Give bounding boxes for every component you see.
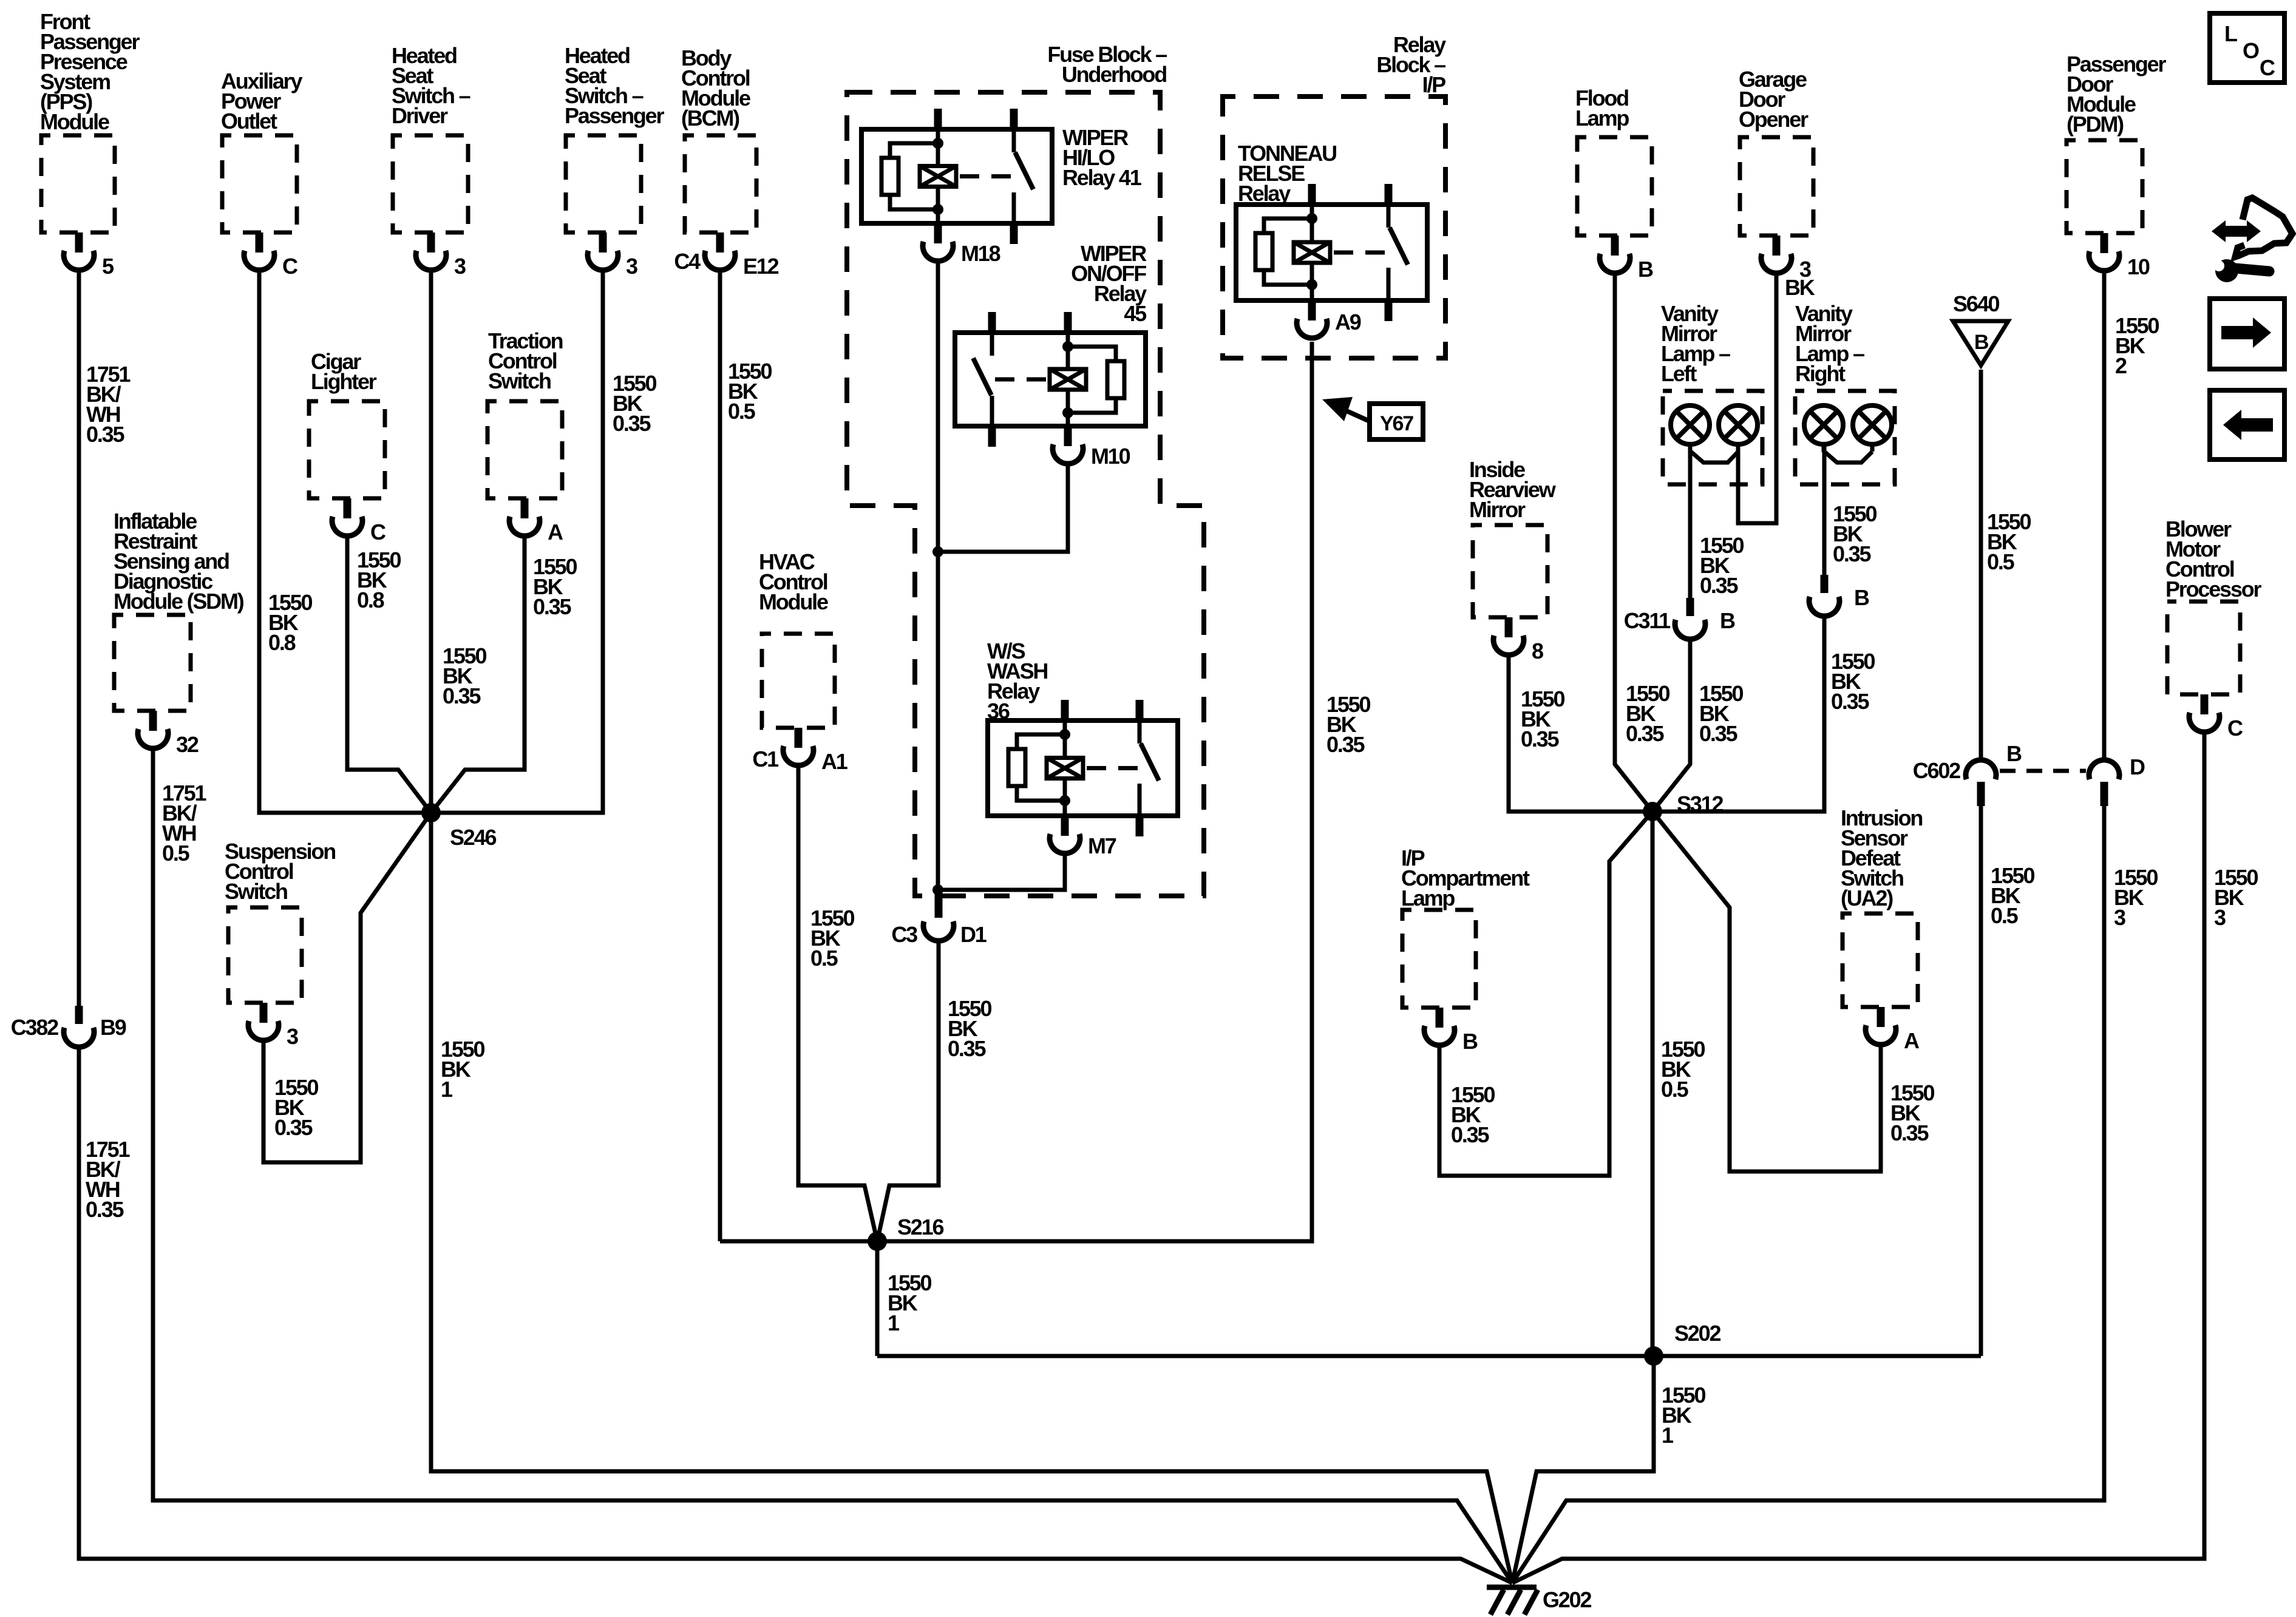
wire flood lamp B 1550 BK 0.35 [1615, 272, 1652, 812]
svg-text:10: 10 [2127, 254, 2150, 279]
wire S216 bus to tonneau relay A9 [720, 342, 1312, 1241]
svg-text:Opener: Opener [1739, 107, 1809, 132]
label wire 1751 BK/WH 0.35 PPS lower [86, 1137, 130, 1222]
svg-text:8: 8 [1532, 639, 1543, 663]
legend left arrow box [2210, 390, 2284, 459]
legend right arrow box [2210, 299, 2284, 369]
connector C602 D [2089, 754, 2145, 806]
switch intrusion sensor defeat UA2 [1841, 805, 1922, 1053]
label wire 1550 BK 0.35 traction [533, 554, 577, 619]
svg-text:M18: M18 [961, 241, 1000, 266]
wire S202 ground drop 1550 BK 1 [1512, 1356, 1654, 1583]
connector C602 dashed link [2000, 769, 2086, 773]
svg-text:C: C [282, 254, 298, 279]
svg-text:C: C [2260, 55, 2275, 80]
svg-text:3: 3 [287, 1024, 298, 1049]
label wire 1550 BK 0.35 flood [1626, 681, 1669, 746]
svg-text:0.8: 0.8 [357, 588, 384, 612]
wire PPS ground 1751 BK/WH upper segment [77, 269, 81, 1006]
legend LOC box [2210, 13, 2284, 83]
svg-text:G202: G202 [1543, 1587, 1591, 1612]
wire suspension control switch 1550 BK 0.35 [263, 813, 431, 1162]
svg-text:(PDM): (PDM) [2067, 112, 2124, 137]
svg-text:0.35: 0.35 [274, 1115, 313, 1140]
svg-text:BK: BK [1785, 275, 1815, 300]
svg-text:B: B [2006, 741, 2022, 766]
svg-text:A: A [1904, 1028, 1920, 1053]
connector A9 tonneau relay [1297, 300, 1361, 338]
svg-text:S246: S246 [450, 825, 496, 850]
wire traction control switch 1550 BK 0.35 [431, 535, 525, 813]
wire vanity mirror left to C311 upper [1688, 443, 1693, 598]
svg-text:2: 2 [2115, 353, 2127, 378]
connector C3/D1 fuse block [891, 891, 987, 947]
wire PPS ground 1751 BK/WH lower segment to G202 [79, 1047, 1512, 1583]
relay block I/P dashed outline [1223, 32, 1446, 358]
wire S216 drop 1550 BK 1 [875, 1241, 880, 1356]
module PPS Front Passenger Presence System [40, 9, 140, 279]
svg-text:(BCM): (BCM) [681, 106, 739, 131]
label wire 1550 BK 0.5 S640 [1987, 509, 2031, 574]
svg-text:Lamp: Lamp [1575, 106, 1629, 131]
svg-text:C382: C382 [11, 1015, 58, 1040]
connector M7 relay 36 [1050, 816, 1116, 858]
label wire 1550 BK 1 S216 drop [888, 1270, 931, 1335]
label wire 1550 BK 0.35 vanity left upper [1700, 533, 1744, 598]
wire relay 45 M10 coil ground [938, 463, 1068, 552]
label wire 1550 BK 0.35 vanity right upper [1833, 501, 1877, 566]
svg-text:0.35: 0.35 [1626, 721, 1664, 746]
relay 36 w/s wash [987, 639, 1178, 836]
wire inside rearview mirror 8 1550 BK 0.35 [1509, 654, 1649, 812]
label wire 1550 BK 0.5 BCM [728, 359, 772, 424]
svg-text:B: B [1854, 585, 1869, 610]
label wire 1550 BK 0.5 HVAC [810, 906, 854, 971]
svg-text:1: 1 [441, 1077, 453, 1102]
module auxiliary power outlet [221, 69, 302, 279]
ground G202 [1487, 1587, 1591, 1615]
wire BCM E12 1550 BK 0.5 [718, 269, 722, 1241]
svg-text:0.8: 0.8 [268, 630, 296, 655]
splice S312 [1643, 792, 1723, 821]
splice S246 [421, 803, 496, 850]
wire C602 D lower 1550 BK 3 to G202 [1512, 806, 2104, 1583]
wire S312 to I/P compartment lamp B [1439, 812, 1652, 1176]
svg-text:S216: S216 [897, 1215, 943, 1239]
svg-text:3: 3 [454, 254, 466, 279]
module PDM passenger door [2067, 52, 2166, 279]
connector M10 relay 45 [1053, 426, 1130, 469]
svg-text:D: D [2130, 754, 2145, 779]
svg-text:32: 32 [176, 732, 199, 757]
svg-text:0.35: 0.35 [1700, 573, 1738, 598]
svg-text:1: 1 [888, 1310, 900, 1335]
label wire 1550 BK 0.5 S312 drop [1661, 1037, 1705, 1102]
svg-text:0.35: 0.35 [613, 411, 651, 436]
legend sketch icon [2235, 198, 2292, 257]
svg-text:0.5: 0.5 [162, 841, 190, 866]
svg-text:Switch: Switch [225, 879, 287, 904]
svg-text:0.35: 0.35 [948, 1036, 986, 1061]
connector B inline on vanity right wire [1809, 575, 1869, 616]
svg-text:Module: Module [40, 109, 109, 134]
lamp I/P compartment [1401, 846, 1530, 1054]
legend double arrow icon [2212, 220, 2261, 242]
svg-text:D1: D1 [960, 922, 987, 947]
svg-text:5: 5 [102, 254, 114, 279]
svg-text:Y67: Y67 [1380, 412, 1413, 435]
svg-text:C1: C1 [752, 747, 779, 771]
wire C602 B lower 1550 BK 0.5 [1979, 806, 1983, 1356]
svg-text:(UA2): (UA2) [1841, 886, 1893, 910]
switch heated seat passenger [565, 43, 664, 279]
svg-text:B: B [1720, 608, 1735, 633]
wire PDM 10 1550 BK 2 [2102, 269, 2107, 761]
svg-text:C: C [370, 520, 386, 544]
svg-text:0.35: 0.35 [1451, 1122, 1489, 1147]
svg-text:B9: B9 [100, 1015, 126, 1040]
svg-text:Driver: Driver [392, 103, 448, 128]
relay 41 wiper hi/lo [861, 109, 1142, 244]
label wire 1550 BK 0.35 suspension [274, 1075, 318, 1140]
wire S246 ground drop 1550 BK 1 to G202 [431, 813, 1512, 1583]
wire cigar lighter 1550 BK 0.8 [347, 535, 431, 813]
lamp vanity mirror right [1795, 301, 1895, 484]
svg-text:Mirror: Mirror [1469, 497, 1526, 522]
svg-text:0.35: 0.35 [1699, 721, 1737, 746]
svg-text:0.5: 0.5 [728, 399, 756, 424]
svg-text:0.35: 0.35 [1326, 732, 1365, 757]
svg-text:A9: A9 [1335, 310, 1361, 334]
wire relay 41 M18 coil ground [936, 260, 940, 891]
svg-text:S202: S202 [1674, 1321, 1720, 1346]
svg-text:Processor: Processor [2165, 577, 2261, 602]
switch traction control [487, 328, 563, 544]
module SDM inflatable restraint sensing and diagnostic [114, 509, 244, 757]
wire garage door opener BK [1738, 272, 1776, 523]
svg-text:Relay 41: Relay 41 [1062, 165, 1142, 190]
label wire 1550 BK 0.35 rearview [1521, 686, 1564, 751]
svg-text:A: A [548, 520, 563, 544]
svg-text:0.5: 0.5 [1991, 903, 2019, 928]
svg-text:Relay: Relay [1238, 181, 1291, 206]
wire heated seat driver 1550 BK 0.35 through S246 [429, 269, 433, 813]
module BCM body control module [674, 46, 778, 279]
svg-text:0.5: 0.5 [810, 946, 838, 971]
label wire 1751 BK/WH 0.5 SDM [162, 781, 206, 866]
label wire 1550 BK 0.35 tonneau [1326, 692, 1370, 757]
svg-text:0.35: 0.35 [1831, 689, 1869, 714]
splice symbol S640 [1953, 291, 2008, 365]
svg-text:0.35: 0.35 [1833, 541, 1871, 566]
label wire 1550 BK 0.8 cigar lighter [357, 547, 401, 612]
splice S202 [1644, 1321, 1720, 1366]
splice S216 [868, 1215, 943, 1251]
wire relay 36 M7 coil ground [938, 852, 1065, 890]
wire auxiliary power outlet 1550 BK 0.8 [259, 269, 429, 813]
svg-text:C311: C311 [1624, 608, 1671, 633]
wire vanity left right-lamp stub [1736, 444, 1741, 523]
svg-text:Outlet: Outlet [221, 109, 277, 134]
mirror inside rearview [1469, 457, 1557, 663]
svg-text:Module (SDM): Module (SDM) [114, 589, 244, 614]
junction M18/M10 wires [932, 546, 943, 557]
wire S312 to intrusion sensor defeat switch A [1652, 812, 1881, 1171]
label wire 1550 BK 0.5 C602 B lower [1991, 863, 2034, 928]
label wire 1550 BK 0.8 aux outlet [268, 590, 312, 655]
svg-text:S312: S312 [1677, 792, 1723, 816]
label wire 1550 BK 0.35 vanity right lower [1831, 649, 1875, 714]
junction M18/M7 wires [932, 884, 943, 895]
svg-text:Switch: Switch [488, 368, 551, 393]
connector C602 B [1913, 741, 2022, 806]
svg-text:Lighter: Lighter [311, 369, 377, 394]
svg-text:Passenger: Passenger [565, 103, 664, 128]
svg-text:I/P: I/P [1422, 72, 1446, 97]
lamp vanity mirror left [1661, 301, 1762, 484]
wire S640 drop 1550 BK 0.5 [1979, 370, 1983, 761]
svg-text:L: L [2224, 21, 2237, 46]
svg-text:C4: C4 [674, 249, 701, 274]
callout Y67 arrow [1322, 397, 1423, 439]
svg-text:Lamp: Lamp [1401, 886, 1455, 910]
connector C382 inline on PPS wire [11, 1006, 126, 1047]
label wire 1550 BK 2 PDM [2115, 313, 2159, 378]
label wire 1550 BK 0.35 I/P lamp [1451, 1082, 1495, 1147]
legend wrench icon [2213, 259, 2269, 282]
svg-text:3: 3 [2114, 905, 2125, 930]
switch suspension control [225, 839, 335, 1049]
label wire 1550 BK 0.35 heated passenger [613, 371, 656, 436]
svg-text:O: O [2243, 38, 2259, 63]
label wire 1550 BK 1 S202 drop [1662, 1383, 1705, 1448]
wire SDM ground 1751 BK/WH to G202 [153, 747, 1512, 1583]
lamp flood [1575, 86, 1653, 282]
wire S202 bus [877, 1354, 1981, 1358]
wire S312 drop 1550 BK 0.5 [1651, 812, 1655, 1356]
wire vanity mirror left lower 1550 BK 0.35 [1652, 639, 1690, 812]
wire vanity mirror right lower 1550 BK 0.35 [1656, 616, 1824, 812]
svg-text:Module: Module [759, 589, 828, 614]
label wire 1550 BK 0.35 intrusion [1890, 1080, 1934, 1145]
svg-text:0.5: 0.5 [1661, 1077, 1689, 1102]
label wire 1751 BK/WH 0.35 PPS upper [86, 362, 131, 447]
svg-text:0.35: 0.35 [1521, 727, 1559, 751]
svg-text:A1: A1 [821, 749, 848, 774]
svg-text:0.35: 0.35 [86, 1197, 124, 1222]
svg-text:0.35: 0.35 [533, 594, 571, 619]
label wire 1550 BK 3 blower [2214, 865, 2258, 930]
svg-text:B: B [1638, 257, 1653, 282]
wire HVAC control module A1 1550 BK 0.5 [798, 764, 877, 1241]
svg-text:Underhood: Underhood [1062, 62, 1166, 87]
svg-text:Left: Left [1661, 361, 1697, 386]
svg-text:0.35: 0.35 [443, 683, 481, 708]
relay tonneau release [1236, 141, 1427, 321]
label wire 1550 BK 0.35 C3/D1 [948, 996, 991, 1061]
wire blower motor control processor C 1550 BK 3 to G202 [1512, 732, 2204, 1583]
svg-text:C: C [2227, 716, 2243, 741]
svg-text:0.5: 0.5 [1987, 549, 2015, 574]
svg-text:C3: C3 [891, 922, 917, 947]
svg-text:C602: C602 [1913, 758, 1960, 783]
label wire 1550 BK 0.35 heated driver [443, 643, 486, 708]
svg-text:45: 45 [1124, 301, 1147, 326]
svg-text:E12: E12 [743, 254, 779, 279]
module cigar lighter [309, 349, 386, 544]
svg-text:Right: Right [1795, 361, 1846, 386]
fuse block underhood dashed outline [847, 42, 1204, 896]
svg-text:1: 1 [1662, 1423, 1674, 1448]
svg-text:3: 3 [626, 254, 637, 279]
module HVAC control [752, 549, 847, 774]
module blower motor control processor [2165, 517, 2261, 741]
svg-text:M7: M7 [1088, 833, 1116, 858]
label wire 1550 BK 1 S246 drop [441, 1037, 484, 1102]
svg-text:36: 36 [987, 699, 1010, 724]
svg-text:B: B [1462, 1029, 1478, 1054]
relay 45 wiper on/off [955, 241, 1147, 447]
wire vanity mirror right to connector B [1822, 443, 1827, 575]
svg-text:3: 3 [2214, 905, 2226, 930]
label wire 1550 BK 3 C602 D lower [2114, 865, 2158, 930]
connector M18 relay 41 [923, 223, 1000, 266]
svg-text:0.35: 0.35 [86, 422, 124, 447]
connector C311 inline [1624, 598, 1735, 639]
wire heated seat passenger 1550 BK 0.35 [433, 269, 603, 813]
svg-text:0.35: 0.35 [1890, 1120, 1929, 1145]
svg-text:B: B [1974, 331, 1989, 354]
switch heated seat driver [392, 43, 470, 279]
svg-text:S640: S640 [1953, 291, 1999, 316]
module garage door opener [1739, 67, 1815, 300]
svg-text:M10: M10 [1091, 444, 1130, 469]
wire fuse block C3/D1 1550 BK 0.35 [877, 941, 939, 1241]
label wire 1550 BK 0.35 vanity left lower [1699, 681, 1743, 746]
